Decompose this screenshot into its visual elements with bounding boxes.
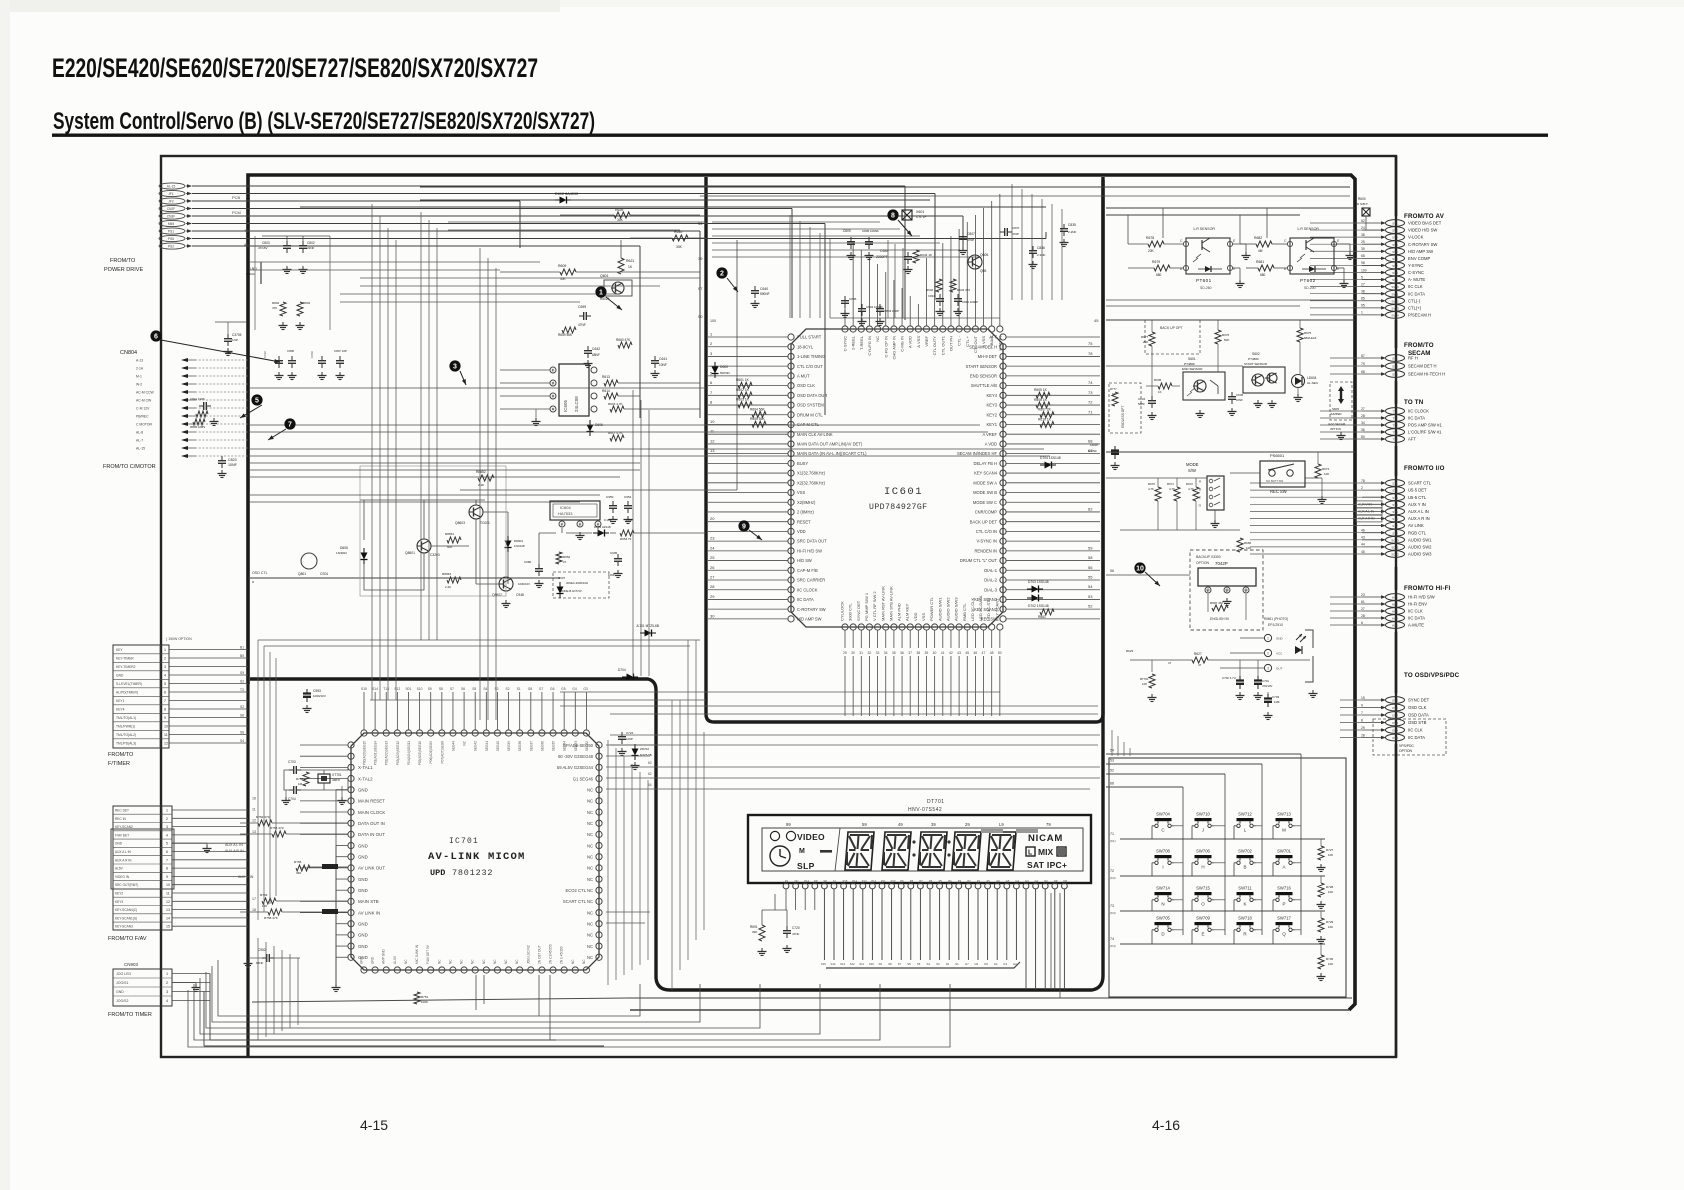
svg-text:X-TAL2: X-TAL2	[358, 776, 373, 781]
svg-text:1: 1	[599, 290, 603, 297]
switch SW716	[1273, 886, 1295, 907]
scan shading top band	[0, 0, 560, 12]
capacitor C645 100NF	[1114, 446, 1116, 451]
svg-text:P8: P8	[910, 879, 914, 883]
svg-text:TML/TO(AL1): TML/TO(AL1)	[116, 716, 136, 720]
svg-text:DIAL-3: DIAL-3	[984, 587, 997, 592]
wire F/TIMER bus numbers	[240, 646, 244, 744]
svg-text:C724: C724	[626, 731, 634, 735]
svg-text:R750: R750	[296, 777, 304, 781]
svg-text:42: 42	[949, 651, 953, 655]
svg-text:C835: C835	[1068, 223, 1076, 227]
svg-text:100: 100	[262, 904, 267, 908]
svg-text:R954 72: R954 72	[620, 537, 632, 541]
svg-text:1: 1	[164, 648, 166, 652]
svg-text:A VSS: A VSS	[916, 336, 921, 348]
svg-text:G3: G3	[1003, 962, 1007, 966]
svg-text:D702 1SS148: D702 1SS148	[1028, 604, 1049, 608]
svg-text:JOG LED NC: JOG LED NC	[526, 944, 530, 964]
svg-text:TT2: TT2	[1392, 417, 1398, 421]
svg-text:H/D SW: H/D SW	[797, 558, 812, 563]
wire IC601 right pin leads	[1006, 337, 1100, 619]
svg-text:M55: M55	[168, 222, 174, 226]
svg-text:Q801: Q801	[298, 572, 306, 576]
svg-text:10: 10	[164, 725, 168, 729]
resistor R756 100	[262, 898, 276, 904]
svg-text:C641: C641	[659, 357, 667, 361]
svg-text:20K: 20K	[1148, 249, 1155, 253]
svg-text:24LC08: 24LC08	[574, 396, 579, 412]
svg-text:10: 10	[166, 883, 170, 887]
svg-text:C950: C950	[606, 495, 614, 499]
transistor Q801 circle	[301, 553, 317, 569]
wire sensor row	[1106, 365, 1243, 367]
svg-text:(K3): (K3)	[1110, 911, 1116, 915]
svg-text:SV11: SV11	[1391, 292, 1398, 296]
svg-text:AL-8: AL-8	[136, 431, 143, 435]
svg-text:59 AL5V G2SEG44: 59 AL5V G2SEG44	[557, 765, 594, 770]
svg-text:SCART CTL: SCART CTL	[1408, 481, 1432, 486]
wire rec switch	[1106, 451, 1355, 453]
svg-text:G1 SEG46: G1 SEG46	[573, 776, 594, 781]
ground F/AV	[206, 845, 208, 849]
svg-text:R671: R671	[1167, 482, 1174, 486]
resistor R729 10K	[1318, 918, 1324, 932]
svg-text:P06(AD6)SEG9: P06(AD6)SEG9	[429, 741, 433, 764]
svg-text:HI-FI ENV: HI-FI ENV	[1408, 602, 1427, 607]
svg-text:C806: C806	[849, 297, 857, 301]
svg-text:NC: NC	[875, 336, 880, 342]
svg-text:P05(AD5)SEG10: P05(AD5)SEG10	[418, 741, 422, 765]
svg-text:68NF: 68NF	[592, 353, 600, 357]
svg-text:82: 82	[1361, 219, 1365, 223]
svg-text:45: 45	[965, 651, 969, 655]
svg-text:MTZ5-5B: MTZ5-5B	[640, 753, 652, 757]
wire IC601 top pin stubs	[845, 194, 1000, 326]
node balloon 9	[738, 520, 749, 531]
capacitor C644 2200PF	[907, 252, 909, 257]
svg-text:5: 5	[255, 398, 259, 405]
svg-text:C702 4.7U: C702 4.7U	[1222, 676, 1236, 680]
svg-text:15: 15	[166, 925, 170, 929]
resistor R730 10K	[1318, 955, 1324, 969]
resistor R8652 2.2K	[478, 475, 494, 481]
svg-text:79: 79	[1046, 822, 1051, 827]
svg-text:CN3F: CN3F	[167, 215, 175, 219]
svg-text:S4: S4	[927, 962, 931, 966]
svg-text:b1: b1	[833, 879, 836, 883]
svg-text:AUX Y IN: AUX Y IN	[1408, 502, 1426, 507]
svg-text:8: 8	[166, 867, 168, 871]
svg-text:23: 23	[1361, 593, 1365, 597]
svg-text:S10: S10	[869, 962, 874, 966]
svg-text:28: 28	[710, 584, 715, 589]
svg-text:OSD DATA OUR: OSD DATA OUR	[797, 393, 827, 398]
svg-text:F5: F5	[987, 879, 991, 883]
wire mode switch	[1106, 477, 1207, 479]
svg-text:10K: 10K	[1142, 682, 1147, 686]
svg-text:DIAL-1: DIAL-1	[984, 568, 997, 573]
svg-text:43: 43	[244, 228, 249, 233]
resistor R687 4M	[1212, 605, 1228, 611]
svg-text:ENDLESS OPT: ENDLESS OPT	[1121, 406, 1125, 428]
svg-text:UPD784927GF: UPD784927GF	[869, 503, 927, 512]
svg-text:SEG41: SEG41	[485, 741, 489, 752]
svg-text:KEY2: KEY2	[987, 412, 998, 417]
svg-text:AL-7: AL-7	[136, 439, 143, 443]
svg-text:S4: S4	[240, 739, 244, 743]
svg-text:SP: SP	[823, 879, 827, 883]
svg-text:H FG IN: H FG IN	[997, 336, 1002, 351]
svg-text:KEY-TIMER2: KEY-TIMER2	[116, 665, 136, 669]
svg-text:P/SECAM H: P/SECAM H	[1408, 313, 1431, 318]
resistor R758 47K	[268, 909, 282, 915]
svg-text:I: I	[1162, 865, 1163, 870]
wire OSD CTL line	[248, 577, 560, 579]
svg-text:2: 2	[710, 341, 713, 346]
svg-text:P4: P4	[948, 879, 952, 883]
svg-text:G3: G3	[1025, 879, 1029, 883]
svg-text:4: 4	[164, 674, 166, 678]
wire CN903 drops	[209, 974, 211, 1041]
svg-text:R751: R751	[421, 995, 429, 999]
svg-text:AL-SEN: AL-SEN	[1307, 381, 1318, 385]
svg-text:GND: GND	[1276, 637, 1284, 641]
svg-text:NC: NC	[582, 959, 586, 964]
svg-text:SW708: SW708	[1156, 849, 1170, 854]
svg-text:R687 4M: R687 4M	[1210, 601, 1223, 605]
svg-text:G: G	[1199, 504, 1202, 508]
resistor R639	[614, 212, 630, 218]
svg-text:R: R	[1243, 932, 1247, 937]
svg-text:14: 14	[166, 916, 170, 920]
svg-text:UPD: UPD	[430, 868, 445, 878]
switch SW708	[1152, 849, 1174, 870]
svg-text:P3: P3	[958, 879, 962, 883]
svg-text:S6: S6	[240, 731, 244, 735]
svg-text:49: 49	[898, 822, 903, 827]
svg-text:2-1A: 2-1A	[136, 367, 144, 371]
svg-text:SEG42: SEG42	[474, 741, 478, 752]
svg-text:R753 470: R753 470	[270, 826, 284, 830]
svg-text:MAIN DATA OUT AMP.LIN(AV DET): MAIN DATA OUT AMP.LIN(AV DET)	[797, 442, 863, 447]
switch SW711	[1234, 886, 1256, 907]
svg-text:(A/V) SECAM: (A/V) SECAM	[1328, 422, 1346, 426]
svg-text:C810: C810	[263, 351, 267, 358]
svg-text:C803: C803	[262, 241, 270, 245]
svg-text:B5: B5	[240, 654, 244, 658]
svg-text:NC: NC	[795, 879, 799, 883]
svg-text:GND: GND	[358, 843, 368, 848]
svg-text:SW705: SW705	[1156, 916, 1170, 921]
capacitor C807 470P	[962, 232, 964, 237]
svg-text:L'COL/RF S/W #1: L'COL/RF S/W #1	[1408, 430, 1442, 435]
svg-text:58: 58	[1088, 555, 1093, 560]
svg-text:System Control/Servo (B) (SLV-: System Control/Servo (B) (SLV-SE720/SE72…	[53, 108, 595, 135]
svg-text:2: 2	[1361, 486, 1363, 490]
svg-text:27: 27	[563, 560, 567, 564]
svg-text:26: 26	[710, 565, 715, 570]
resistor R802 R804 pair	[280, 302, 286, 316]
wire xtal leads	[284, 768, 348, 790]
svg-text:SW701: SW701	[1277, 849, 1291, 854]
svg-text:P13: P13	[862, 879, 867, 883]
svg-text:ST7: ST7	[1392, 524, 1398, 528]
svg-text:C-SYNC: C-SYNC	[843, 336, 848, 351]
svg-text:72: 72	[1088, 400, 1093, 405]
svg-text:53: 53	[1110, 759, 1114, 763]
svg-text:F/AV DET 3V: F/AV DET 3V	[426, 944, 430, 964]
svg-text:GND: GND	[115, 842, 123, 846]
svg-text:SC11: SC11	[1391, 546, 1399, 550]
diode D706 5.6V	[632, 749, 639, 756]
svg-text:53: 53	[1088, 594, 1093, 599]
ground rec sw	[1321, 496, 1323, 500]
svg-text:G3: G3	[583, 687, 588, 691]
svg-text:NC: NC	[587, 821, 593, 826]
switch SW709	[1192, 916, 1214, 937]
svg-text:39K: 39K	[752, 930, 757, 934]
svg-text:HI-FI H/D S/W: HI-FI H/D S/W	[1408, 595, 1435, 600]
wire sensors top	[1106, 207, 1355, 209]
svg-text:JF2: JF2	[168, 200, 174, 204]
svg-text:R8653: R8653	[442, 572, 451, 576]
schematic outer border	[161, 156, 1396, 1057]
svg-text:2.2K: 2.2K	[445, 585, 451, 589]
svg-text:34: 34	[884, 651, 888, 655]
IC IC605 24LC08	[500, 364, 597, 426]
svg-text:47NF: 47NF	[578, 323, 586, 327]
svg-text:LD604: LD604	[1307, 376, 1317, 380]
connector F/AV	[111, 806, 248, 930]
svg-text:P14: P14	[852, 879, 857, 883]
svg-text:Y-SYNC: Y-SYNC	[1408, 263, 1423, 268]
svg-text:CTL(-): CTL(-)	[1408, 298, 1421, 303]
svg-text:10K: 10K	[1328, 925, 1333, 929]
capacitor C806 100NF	[844, 296, 846, 301]
svg-text:C948: C948	[516, 593, 524, 597]
svg-text:D612 8A4002: D612 8A4002	[555, 192, 578, 196]
capacitor C838 2.2NF	[1063, 224, 1065, 229]
svg-text:S15: S15	[821, 962, 826, 966]
svg-text:G7: G7	[539, 687, 544, 691]
svg-text:CAP-M F/B: CAP-M F/B	[797, 568, 818, 573]
svg-text:IC701: IC701	[449, 837, 479, 846]
svg-text:59: 59	[1088, 545, 1093, 550]
svg-text:T-REEL: T-REEL	[859, 335, 864, 350]
svg-text:AUDIO SW3: AUDIO SW3	[1408, 552, 1432, 557]
svg-text:2: 2	[166, 817, 168, 821]
label boxes AUX inputs	[1356, 501, 1382, 508]
wire regulator area	[460, 240, 737, 564]
svg-text:4: 4	[166, 999, 168, 1003]
svg-text:C807: C807	[967, 232, 975, 236]
svg-text:SECAM: SECAM	[1408, 350, 1430, 357]
svg-text:N: N	[1161, 902, 1164, 907]
svg-text:Q8601: Q8601	[405, 551, 415, 555]
svg-text:30: 30	[851, 651, 855, 655]
svg-text:64: 64	[648, 783, 652, 787]
svg-text:MODE SW B: MODE SW B	[973, 490, 997, 495]
svg-text:4MHz: 4MHz	[332, 778, 341, 782]
svg-text:C905: C905	[610, 551, 618, 555]
svg-text:VREF: VREF	[924, 335, 929, 346]
switch SW601 MODE	[1186, 462, 1224, 528]
svg-text:20K: 20K	[1143, 340, 1148, 344]
capacitor C705 cluster right of IC701	[621, 732, 623, 737]
capacitor cluster C809 C805	[850, 237, 852, 242]
svg-text:KEY2: KEY2	[115, 892, 123, 896]
svg-text:SW710: SW710	[1196, 812, 1210, 817]
connector TO TN	[1361, 399, 1442, 442]
svg-text:IC601: IC601	[884, 486, 923, 498]
svg-text:90: 90	[698, 314, 703, 319]
capacitor C905 10NF	[617, 554, 619, 559]
svg-text:A: A	[1282, 865, 1285, 870]
svg-text:NC: NC	[587, 799, 593, 804]
svg-text:C703: C703	[288, 760, 296, 764]
svg-text:SEG44: SEG44	[451, 741, 455, 752]
svg-text:G6: G6	[550, 687, 555, 691]
svg-text:SV4: SV4	[1392, 243, 1398, 247]
switch SW702	[1234, 849, 1256, 870]
svg-text:JOG/S2: JOG/S2	[116, 999, 129, 1003]
capacitor C640 590NF	[754, 286, 756, 291]
svg-text:R661: R661	[1038, 615, 1046, 619]
svg-text:34: 34	[1361, 421, 1365, 425]
svg-text:P1: P1	[977, 879, 981, 883]
svg-text:9: 9	[742, 524, 746, 531]
svg-text:MODE SW C: MODE SW C	[973, 500, 997, 505]
svg-text:MIC JUNK IN: MIC JUNK IN	[415, 944, 419, 964]
svg-text:S2: S2	[506, 687, 510, 691]
svg-text:P15: P15	[843, 879, 848, 883]
svg-text:68: 68	[1361, 370, 1365, 374]
svg-text:SW709: SW709	[1196, 916, 1210, 921]
svg-text:AUX V IN: AUX V IN	[238, 875, 254, 879]
svg-text:30K: 30K	[676, 245, 683, 249]
svg-text:95: 95	[1361, 304, 1365, 308]
svg-text:MAIN RESET: MAIN RESET	[358, 799, 385, 804]
resistor R8651 50K	[447, 537, 461, 543]
svg-text:R676: R676	[1222, 333, 1230, 337]
svg-text:C802: C802	[310, 351, 314, 358]
svg-text:74: 74	[1088, 380, 1093, 385]
svg-text:NC: NC	[587, 866, 593, 871]
svg-text:S12: S12	[850, 962, 855, 966]
svg-text:AL/PD(TIMER): AL/PD(TIMER)	[116, 691, 138, 695]
svg-text:SRC OUT(RMT): SRC OUT(RMT)	[115, 883, 138, 887]
svg-text:V-SYNC IN: V-SYNC IN	[977, 539, 998, 544]
svg-text:6: 6	[166, 850, 168, 854]
ferrite D721 link in	[322, 909, 338, 914]
svg-text:10NF: 10NF	[228, 463, 238, 467]
svg-text:HF1: HF1	[1392, 596, 1398, 600]
LED D604 AL-SEN	[1292, 375, 1305, 388]
thermistor RT701 10K	[1149, 674, 1155, 688]
svg-text:AUX A L IN: AUX A L IN	[1408, 509, 1429, 514]
wire bus right column verticals	[1112, 222, 1372, 756]
resistor R755 390	[296, 865, 310, 871]
wire thick box IC601	[706, 177, 1103, 722]
svg-text:OS5: OS5	[1392, 699, 1398, 703]
svg-text:X2(32.768KHz): X2(32.768KHz)	[797, 480, 826, 485]
svg-text:7: 7	[710, 390, 713, 395]
svg-text:GP/AD6-SEG50: GP/AD6-SEG50	[563, 743, 594, 748]
svg-text:ALM KEY: ALM KEY	[905, 603, 910, 621]
wire right strip feeders	[1250, 156, 1396, 1057]
svg-text:AUX A R IN: AUX A R IN	[225, 849, 244, 853]
svg-text:TML/PWR(1): TML/PWR(1)	[116, 725, 135, 729]
svg-text:S2: S2	[946, 962, 950, 966]
svg-text:SYNC DET: SYNC DET	[856, 600, 861, 621]
svg-text:C809: C809	[843, 229, 851, 233]
svg-text:L: L	[1028, 850, 1033, 857]
svg-text:AC-M CCW: AC-M CCW	[136, 391, 155, 395]
svg-text:DT701: DT701	[927, 799, 945, 805]
svg-text:D704: D704	[618, 668, 626, 672]
ground PT601	[1245, 252, 1247, 256]
svg-text:O: O	[1201, 902, 1205, 907]
svg-text:50: 50	[998, 651, 1002, 655]
svg-text:CTL +: CTL +	[965, 335, 970, 347]
svg-text:PS6: PS6	[168, 237, 174, 241]
svg-text:P11: P11	[881, 879, 886, 883]
svg-text:L801: L801	[250, 267, 257, 271]
diode D702 dial	[1032, 595, 1039, 602]
svg-text:38: 38	[1361, 290, 1365, 294]
wire bus mid horizontals	[250, 388, 1098, 714]
transistor Q603	[968, 255, 982, 269]
svg-text:AUX A L IN: AUX A L IN	[115, 850, 132, 854]
svg-text:S2: S2	[240, 680, 244, 684]
svg-text:15: 15	[1361, 696, 1365, 700]
svg-text:SS1: SS1	[1392, 357, 1398, 361]
svg-text:S11: S11	[859, 962, 864, 966]
svg-text:87: 87	[1361, 354, 1365, 358]
svg-text:2.2NF: 2.2NF	[1037, 253, 1046, 257]
svg-text:KEY-SCAN3: KEY-SCAN3	[115, 925, 133, 929]
svg-text:C808: C808	[287, 349, 294, 353]
inductor L801 500UH	[260, 262, 262, 284]
svg-text:R691: R691	[750, 925, 758, 929]
resistor R8653 2.2K	[447, 577, 461, 583]
svg-text:SEG33: SEG33	[574, 741, 578, 752]
svg-text:R777: R777	[1110, 387, 1117, 391]
svg-text:R659 56K: R659 56K	[558, 333, 573, 337]
node balloon 1	[595, 286, 606, 297]
resistor R728 10K	[1318, 883, 1324, 897]
svg-text:NC: NC	[571, 959, 575, 964]
svg-text:10K: 10K	[1246, 546, 1251, 550]
svg-text:R623: R623	[1126, 649, 1134, 653]
svg-text:4-15: 4-15	[360, 1117, 388, 1133]
capacitor C952 68NF	[262, 957, 267, 959]
scan shading left margin	[0, 0, 10, 1190]
svg-text:C701: C701	[1262, 679, 1269, 683]
capacitor C810 C808 cluster	[278, 356, 280, 361]
svg-text:JF1: JF1	[168, 192, 174, 196]
svg-text:BACK UP OPT: BACK UP OPT	[1160, 326, 1183, 330]
svg-text:97: 97	[698, 286, 703, 291]
capacitor C641 10NF	[654, 356, 656, 361]
capacitor C701 470/10V	[1257, 676, 1259, 681]
svg-text:SEG38: SEG38	[518, 741, 522, 752]
svg-text:100NF: 100NF	[1088, 449, 1097, 453]
svg-text:GND: GND	[360, 956, 364, 964]
svg-text:30K: 30K	[617, 218, 624, 222]
svg-text:AUX A R IN: AUX A R IN	[1408, 516, 1430, 521]
